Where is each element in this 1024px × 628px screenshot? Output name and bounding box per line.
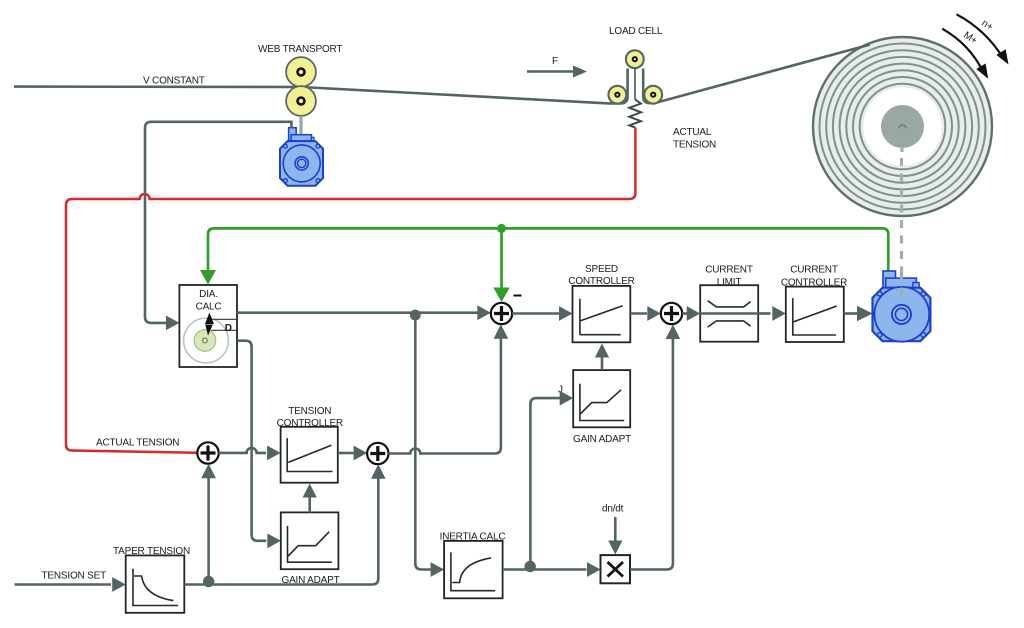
- multiplier X: [601, 555, 631, 583]
- arc arrow n+: [957, 14, 1014, 67]
- node taper junction: [203, 576, 214, 587]
- node J junction: [525, 561, 536, 572]
- wire taper tension to S4 bottom rail: [184, 478, 378, 585]
- box INERTIA CALC: [444, 541, 503, 598]
- svg-text:TENSION SET: TENSION SET: [42, 571, 107, 582]
- svg-text:ACTUAL: ACTUAL: [673, 127, 712, 138]
- wire J inertia to gain adapt: [530, 398, 560, 561]
- svg-text:SPEED: SPEED: [585, 264, 618, 275]
- wire speed controller to S2: [630, 312, 647, 315]
- dashed shaft overlay on motor M2: [900, 272, 903, 296]
- winder roll: [813, 37, 992, 216]
- roller web transport bottom: [286, 86, 316, 116]
- wire D down to inertia calc: [415, 315, 431, 570]
- wire web line V constant: [14, 69, 643, 104]
- wire taper junction up into S3: [207, 477, 210, 585]
- box GAIN ADAPT speed: [573, 370, 631, 445]
- label minus: [514, 295, 522, 297]
- green arrow into summing point: [493, 288, 509, 303]
- box GAIN ADAPT tension: [281, 512, 340, 586]
- wire dia calc to gain adapt tension: [237, 341, 266, 541]
- wire inertia calc to multiplier: [503, 568, 587, 571]
- label ACTUAL TENSION top: [673, 127, 716, 151]
- svg-text:DIA.: DIA.: [199, 289, 218, 300]
- wire red actual tension feedback: [66, 128, 635, 453]
- dashed shaft line roll to motor: [900, 148, 904, 296]
- svg-text:ACTUAL TENSION: ACTUAL TENSION: [96, 438, 179, 449]
- summing point S3: [197, 442, 218, 463]
- wire multiplier up to S2: [630, 339, 673, 570]
- svg-text:TENSION: TENSION: [288, 406, 331, 417]
- summing point S2: [661, 303, 682, 324]
- box TENSION CONTROLLER: [277, 406, 343, 483]
- load cell roller top: [626, 50, 644, 68]
- shaft roller to motor M1: [299, 116, 302, 136]
- wire web tangent to roll: [643, 45, 870, 104]
- svg-text:GAIN ADAPT: GAIN ADAPT: [573, 434, 631, 445]
- motor M2 winder: [873, 271, 931, 342]
- summing point S1: [491, 303, 512, 324]
- svg-text:V CONSTANT: V CONSTANT: [143, 76, 205, 87]
- svg-text:CALC: CALC: [196, 302, 222, 313]
- wire S1 to speed controller: [512, 312, 559, 315]
- svg-text:TENSION: TENSION: [673, 140, 716, 151]
- svg-text:D: D: [225, 323, 232, 334]
- wire S3 to tension controller with hop: [219, 448, 266, 453]
- wire current limit to current controller: [758, 312, 770, 315]
- wire green line speed setpoint: [208, 228, 888, 290]
- wire S4 up to S1 with hop: [389, 338, 501, 454]
- node green junction: [497, 224, 506, 233]
- svg-text:dn/dt: dn/dt: [602, 504, 624, 515]
- wire dia calc to summing point: [237, 311, 488, 314]
- svg-text:CURRENT: CURRENT: [790, 265, 838, 276]
- wire tension controller to S4: [338, 452, 354, 455]
- load cell roller right: [644, 86, 662, 104]
- wire dn/dt into multiplier: [614, 517, 617, 541]
- motor M1 web transport: [280, 128, 323, 186]
- box DIA CALC: [179, 285, 237, 367]
- svg-text:LOAD CELL: LOAD CELL: [609, 26, 663, 37]
- spring load cell: [629, 68, 641, 127]
- roll hub: [881, 105, 924, 148]
- summing point S4: [367, 443, 388, 464]
- svg-text:F: F: [552, 56, 558, 67]
- arrow F: [527, 66, 587, 78]
- box SPEED CONTROLLER: [568, 264, 634, 343]
- wire gain adapt to speed controller: [601, 357, 604, 370]
- wire gray speed reference from web transport: [145, 122, 291, 323]
- load cell roller left: [609, 86, 627, 104]
- wire gain adapt tension up to tension controller: [308, 497, 311, 513]
- roller web transport top: [286, 57, 316, 87]
- svg-text:CURRENT: CURRENT: [705, 265, 753, 276]
- box CURRENT CONTROLLER: [781, 265, 847, 342]
- wire tension set into taper tension: [15, 583, 111, 586]
- box CURRENT LIMIT: [700, 265, 758, 342]
- green arrow into dia calc: [200, 270, 216, 285]
- node junction D: [410, 310, 421, 321]
- wire current controller to motor M2: [844, 312, 858, 315]
- wire S2 to current limit: [682, 312, 687, 315]
- arc arrow M+: [942, 29, 993, 82]
- svg-text:WEB TRANSPORT: WEB TRANSPORT: [258, 44, 342, 55]
- box TAPER TENSION: [113, 546, 190, 613]
